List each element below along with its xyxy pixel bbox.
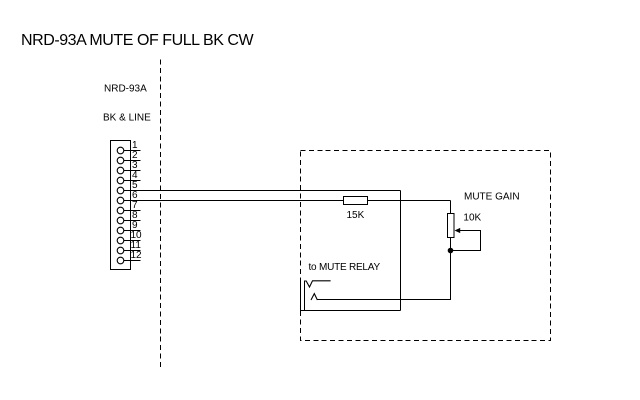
dashed enclosure box (external unit) bbox=[301, 151, 551, 341]
wire down into pot top bbox=[450, 201, 452, 214]
wire pin6 to resistor bbox=[124, 200, 344, 202]
pin numbers 1-12 bbox=[131, 140, 143, 261]
svg-text:15K: 15K bbox=[347, 210, 365, 221]
connector J1 body bbox=[111, 141, 131, 270]
jack tip contact caret bbox=[311, 294, 317, 300]
wire resistor to pot drop bbox=[368, 200, 451, 202]
svg-text:MUTE GAIN: MUTE GAIN bbox=[464, 192, 520, 203]
svg-text:to MUTE RELAY: to MUTE RELAY bbox=[309, 262, 381, 273]
wire pot bottom down to tip contact run bbox=[450, 238, 452, 301]
jack body bar (right) bbox=[304, 280, 306, 310]
jack J2 sleeve bar (left) bbox=[300, 278, 302, 314]
junction dot (wiper to pot bottom) bbox=[448, 248, 454, 254]
connector pin circles 1-12 bbox=[117, 147, 124, 264]
potentiometer VR1 10K body bbox=[448, 214, 455, 238]
svg-text:10K: 10K bbox=[463, 213, 481, 224]
svg-text:NRD-93A: NRD-93A bbox=[104, 83, 147, 94]
resistor R1 15K bbox=[344, 197, 368, 205]
pin stub lines (pins 1-4, 7-12) bbox=[124, 151, 141, 261]
jack sleeve wire (bottom) bbox=[301, 310, 401, 312]
svg-text:12: 12 bbox=[131, 250, 143, 261]
dashed boundary line (chassis/panel) vertical bbox=[160, 60, 162, 370]
svg-text:BK & LINE: BK & LINE bbox=[103, 112, 151, 123]
wiper wire loop bbox=[451, 231, 481, 251]
wire vertical down to jack sleeve run bbox=[400, 191, 402, 311]
wire pin5 long run to the right bbox=[124, 190, 401, 192]
jack break-contact with V notch bbox=[305, 281, 331, 287]
pot wiper arrow bbox=[455, 228, 461, 233]
wire tip contact to pot junction bbox=[317, 299, 450, 301]
svg-text:NRD-93A MUTE OF FULL BK CW: NRD-93A MUTE OF FULL BK CW bbox=[21, 32, 255, 49]
